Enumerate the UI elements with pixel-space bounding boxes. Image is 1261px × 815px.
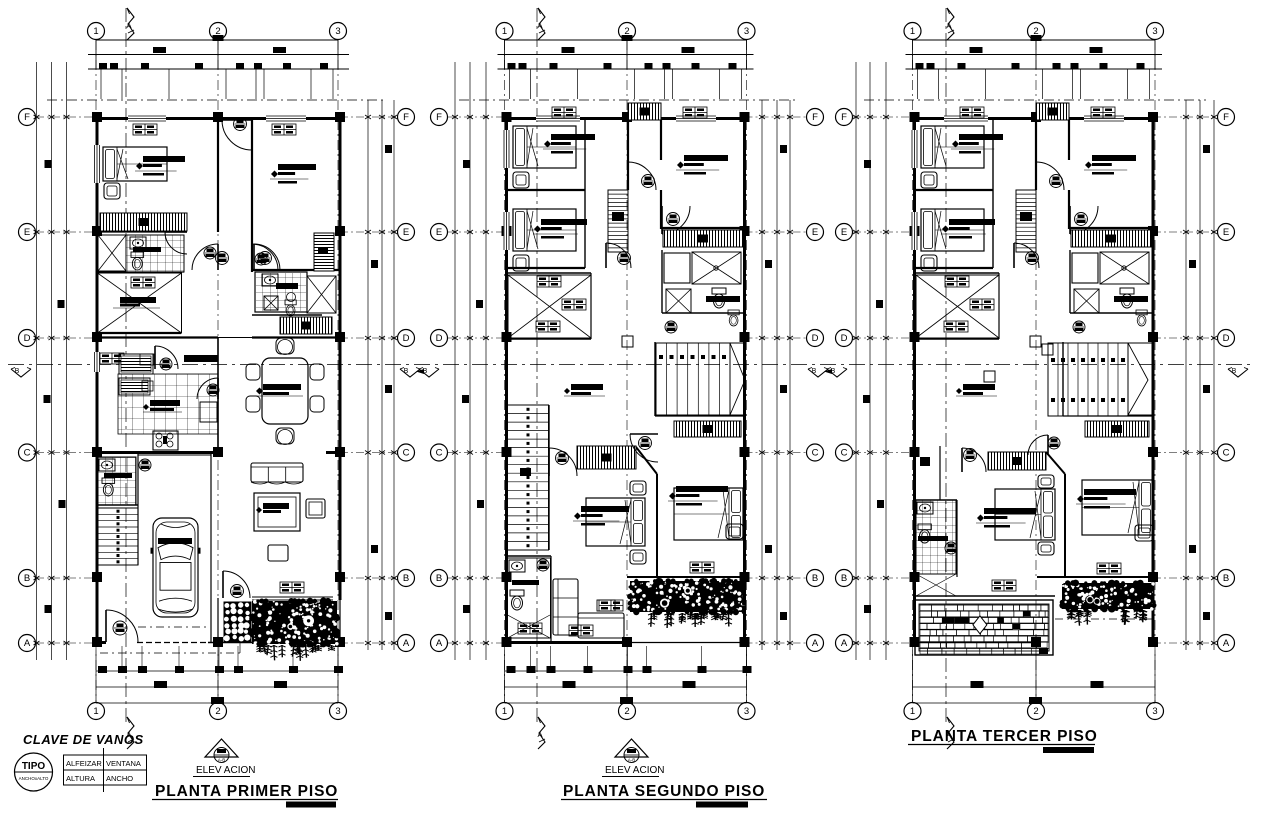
axis circle C right (398, 444, 415, 461)
coffee table (254, 493, 300, 531)
p3 windows F wall (944, 116, 988, 122)
label comedor (263, 384, 301, 390)
p2 left long stairs (508, 405, 549, 550)
left wall windows p3 (912, 130, 918, 168)
p2 L sofa (553, 579, 578, 635)
svg-text:VENTANA: VENTANA (106, 759, 141, 768)
plan3 interior walls (915, 118, 1154, 596)
axis circle 2 top (1028, 23, 1045, 40)
axis circle F left (836, 109, 853, 126)
svg-text:1: 1 (502, 26, 507, 37)
grid frame P3 (836, 8, 1235, 749)
axis circle 1 bottom (496, 703, 513, 720)
door arc kitchen right (197, 378, 218, 399)
p3 closet hatch right (1071, 230, 1151, 247)
p2 corridor doors (628, 162, 656, 190)
p3 roof tiles (915, 600, 1053, 655)
svg-text:E: E (1223, 227, 1229, 238)
left wall windows p1 (94, 145, 100, 183)
axis circle 1 top (496, 23, 513, 40)
p3 small sq marks (1042, 344, 1053, 355)
p3 master hatch (988, 452, 1046, 470)
svg-text:CLAVE DE VANOS: CLAVE DE VANOS (23, 732, 144, 747)
axis circle D left (431, 330, 448, 347)
p2 top stair hatch (628, 103, 661, 120)
svg-text:PLANTA PRIMER PISO: PLANTA PRIMER PISO (155, 783, 338, 800)
p3 small square (1030, 336, 1041, 347)
svg-text:A: A (403, 638, 410, 649)
axis circle C right (807, 444, 824, 461)
grid frame P1 (19, 8, 415, 749)
svg-text:3: 3 (744, 26, 749, 37)
grid frame P2 (431, 8, 824, 749)
axis circle 3 top (330, 23, 347, 40)
closet hatch dorm2 (314, 233, 334, 271)
p2 door P10 (630, 434, 658, 462)
axis circle E left (836, 224, 853, 241)
axis circle 1 bottom (88, 703, 105, 720)
svg-text:C: C (841, 448, 848, 459)
svg-text:B: B (436, 573, 442, 584)
car (151, 518, 201, 617)
svg-text:1: 1 (910, 26, 915, 37)
svg-text:B: B (1223, 573, 1229, 584)
axis circle 1 bottom (904, 703, 921, 720)
svg-text:ANCHOxALTO: ANCHOxALTO (19, 776, 49, 781)
stairs plan1 (98, 508, 138, 565)
p3 garden (1059, 580, 1156, 626)
plan 1 walls (92, 112, 345, 647)
axis circle 3 top (738, 23, 755, 40)
svg-text:D: D (403, 333, 410, 344)
window above garden (252, 596, 333, 598)
axis circle B left (836, 570, 853, 587)
kitchen label (150, 400, 180, 406)
legend table (64, 748, 147, 792)
p3 door P10 (1028, 435, 1048, 455)
p2 hatch under stairs (674, 421, 741, 437)
svg-text:1: 1 (910, 706, 915, 717)
p2 master bed (586, 498, 645, 546)
svg-text:A: A (946, 21, 951, 30)
svg-text:2: 2 (624, 706, 629, 717)
sofa (251, 463, 303, 484)
p2 right bed (674, 488, 743, 540)
svg-text:B: B (812, 368, 817, 375)
p2 closet hatch mid (577, 446, 636, 469)
axis circle 1 top (88, 23, 105, 40)
p3 top stair hatch (1036, 103, 1069, 120)
left wall windows p2 (504, 130, 510, 168)
kitchen counters (119, 354, 153, 374)
svg-text:A: A (812, 638, 819, 649)
axis circle C left (431, 444, 448, 461)
svg-text:A: A (537, 730, 542, 739)
p2 bed dorm1 (513, 126, 576, 168)
bed dorm1 P1 (103, 147, 167, 181)
hall vacio xbox (98, 273, 182, 333)
svg-text:D: D (841, 333, 848, 344)
p3 door master (962, 448, 986, 472)
axis circle F right (398, 109, 415, 126)
p2 bath right (664, 253, 690, 283)
svg-text:B: B (841, 573, 847, 584)
svg-text:F: F (436, 112, 442, 123)
svg-text:B: B (15, 368, 20, 375)
svg-text:A-B: A-B (628, 758, 636, 763)
svg-text:ALFEIZAR: ALFEIZAR (66, 759, 102, 768)
p2 small square (622, 336, 633, 347)
elevation symbol 2 (615, 739, 648, 763)
pebbles patio (224, 602, 251, 642)
axis circle 3 bottom (738, 703, 755, 720)
top eave lines P3 (913, 39, 1156, 41)
door arc into dorm2 (254, 244, 280, 270)
door arc P5 (222, 120, 252, 150)
stove (153, 431, 178, 450)
svg-text:3: 3 (1152, 706, 1157, 717)
p3 corridor doors (1036, 162, 1064, 190)
svg-text:3: 3 (744, 706, 749, 717)
dining table (246, 338, 324, 445)
svg-text:1: 1 (93, 706, 98, 717)
axis circle D right (807, 330, 824, 347)
axis circle B right (807, 570, 824, 587)
axis circle F left (19, 109, 36, 126)
axis circle A left (836, 635, 853, 652)
svg-text:PLANTA TERCER PISO: PLANTA TERCER PISO (911, 728, 1098, 745)
axis circle D left (19, 330, 36, 347)
closet hatch dorm1 (100, 213, 187, 231)
svg-text:B: B (24, 573, 30, 584)
p3 door under stairs (1014, 243, 1039, 268)
svg-text:C: C (403, 448, 410, 459)
p3 mid stairs (1016, 190, 1036, 252)
axis circle A right (1218, 635, 1235, 652)
axis circle B left (431, 570, 448, 587)
axis circle D left (836, 330, 853, 347)
elevation symbol 1 (205, 739, 238, 763)
axis circle F right (807, 109, 824, 126)
svg-text:E: E (403, 227, 409, 238)
p3 bathroom left (916, 500, 956, 574)
xbox right of bath (307, 276, 336, 313)
p2 closet hatch right (663, 230, 743, 247)
bath 3 (98, 457, 136, 505)
door P7 arc (165, 232, 187, 254)
p3 vacio xbox (916, 275, 999, 338)
black bar top right kitchen (184, 355, 218, 362)
axis circle 3 bottom (1147, 703, 1164, 720)
p2 vacio xbox (508, 275, 591, 338)
p2 bathroom lower left (508, 558, 551, 638)
kitchen tiled floor (118, 374, 218, 434)
svg-text:3: 3 (335, 706, 340, 717)
svg-text:F: F (841, 112, 847, 123)
top eave lines P1 (96, 39, 338, 41)
axis circle B left (19, 570, 36, 587)
axis circle B right (1218, 570, 1235, 587)
svg-text:B: B (404, 368, 409, 375)
svg-text:D: D (1223, 333, 1230, 344)
axis circle C right (1218, 444, 1235, 461)
svg-text:E: E (436, 227, 442, 238)
shower xbox (98, 235, 126, 271)
svg-text:F: F (24, 112, 30, 123)
plan1 interior walls (97, 118, 340, 643)
svg-text:C: C (812, 448, 819, 459)
bottom dimension lines P1 (96, 670, 338, 672)
svg-text:A: A (24, 638, 31, 649)
svg-text:1: 1 (502, 706, 507, 717)
svg-text:A-B: A-B (218, 758, 226, 763)
svg-text:C: C (436, 448, 443, 459)
svg-text:3: 3 (1152, 26, 1157, 37)
plan2 interior walls (507, 118, 745, 643)
svg-text:F: F (812, 112, 818, 123)
B markers (11, 369, 31, 377)
svg-text:ANCHO: ANCHO (106, 774, 133, 783)
bottom dimension lines P2 (505, 670, 747, 672)
window label (133, 124, 157, 135)
svg-text:ELEV ACION: ELEV ACION (605, 765, 664, 776)
svg-text:C: C (24, 448, 31, 459)
bathroom 1 tiled (126, 235, 184, 272)
svg-text:1: 1 (93, 26, 98, 37)
svg-text:A: A (126, 21, 131, 30)
axis circle E left (431, 224, 448, 241)
p2 small table (597, 600, 615, 611)
svg-text:3: 3 (335, 26, 340, 37)
p2 label dorm3 (676, 155, 728, 175)
svg-text:ALTURA: ALTURA (66, 774, 95, 783)
door P3 garden (223, 571, 250, 598)
bottom dimension lines P3 (913, 686, 1156, 688)
axis circle B right (398, 570, 415, 587)
p2 door under stairs (606, 243, 631, 268)
garden plants plan1 (249, 598, 340, 661)
svg-text:TIPO: TIPO (22, 761, 46, 772)
axis circle D right (1218, 330, 1235, 347)
axis circle C left (836, 444, 853, 461)
top eave lines P2 (505, 39, 747, 41)
axis circle 2 bottom (619, 703, 636, 720)
plan 2 walls (502, 112, 750, 647)
bath 2 (255, 272, 307, 312)
door P4 kitchen (155, 346, 178, 369)
svg-text:B: B (403, 573, 409, 584)
svg-text:2: 2 (215, 706, 220, 717)
axis circle 2 top (619, 23, 636, 40)
p3 hall label (963, 384, 995, 390)
p3 hatch under stairs (1085, 421, 1149, 437)
entry door P1 (106, 610, 138, 642)
axis circle 3 bottom (330, 703, 347, 720)
axis circle 3 top (1147, 23, 1164, 40)
label dormitorio 2 (270, 164, 316, 184)
svg-text:D: D (436, 333, 443, 344)
axis circle A left (19, 635, 36, 652)
svg-text:F: F (403, 112, 409, 123)
svg-text:B: B (812, 573, 818, 584)
svg-text:E: E (812, 227, 818, 238)
plan 3 walls (910, 112, 1159, 647)
side table (306, 499, 325, 518)
svg-text:A: A (537, 21, 542, 30)
small seat (268, 545, 288, 561)
axis circle A left (431, 635, 448, 652)
svg-text:B: B (1232, 368, 1237, 375)
p3 label dorm3 (1084, 155, 1136, 175)
hatch band below right bath (280, 317, 332, 334)
axis circle E right (1218, 224, 1235, 241)
axis circle 2 bottom (1028, 703, 1045, 720)
label hall (120, 297, 156, 303)
p3 bed dorm1 (921, 126, 984, 168)
svg-text:PLANTA SEGUNDO PISO: PLANTA SEGUNDO PISO (563, 783, 765, 800)
axis circle 2 bottom (210, 703, 227, 720)
svg-text:F: F (1223, 112, 1229, 123)
axis circle A right (398, 635, 415, 652)
p2 big stairs (656, 343, 730, 415)
axis circle A right (807, 635, 824, 652)
TIPO circle (15, 753, 53, 791)
axis circle C left (19, 444, 36, 461)
door P10 arcs corridor (192, 244, 218, 270)
p2 bed dorm2 (513, 209, 576, 251)
p2 windows F wall (536, 116, 580, 122)
svg-text:E: E (841, 227, 847, 238)
p3 bed dorm2 (921, 209, 984, 251)
p3 right bed (1082, 480, 1153, 535)
p2 door P stairs (549, 448, 577, 476)
svg-text:E: E (24, 227, 30, 238)
svg-text:ELEV ACION: ELEV ACION (196, 765, 255, 776)
garage top line (138, 454, 211, 456)
svg-text:D: D (812, 333, 819, 344)
p2 mid stairs (ladder) (608, 190, 628, 252)
axis circle D right (398, 330, 415, 347)
axis circle F left (431, 109, 448, 126)
svg-text:A: A (841, 638, 848, 649)
p3 big stairs (1048, 343, 1128, 416)
p3 master bed (995, 489, 1055, 540)
p2 hall label (571, 384, 603, 390)
p3 bath right (1072, 253, 1098, 283)
axis circle F right (1218, 109, 1235, 126)
axis circle 2 top (210, 23, 227, 40)
label dormitorio 1 (135, 156, 185, 176)
svg-text:A: A (436, 638, 443, 649)
axis circle E right (398, 224, 415, 241)
svg-text:A: A (1223, 638, 1230, 649)
section line B-B (8, 364, 1253, 366)
svg-text:C: C (1223, 448, 1230, 459)
garage door dashes (138, 626, 208, 628)
p2 garden (627, 578, 746, 628)
svg-text:2: 2 (1033, 706, 1038, 717)
white box right kitchen (200, 402, 217, 422)
axis circle E right (807, 224, 824, 241)
axis circle E left (19, 224, 36, 241)
axis circle 1 top (904, 23, 921, 40)
svg-text:D: D (24, 333, 31, 344)
